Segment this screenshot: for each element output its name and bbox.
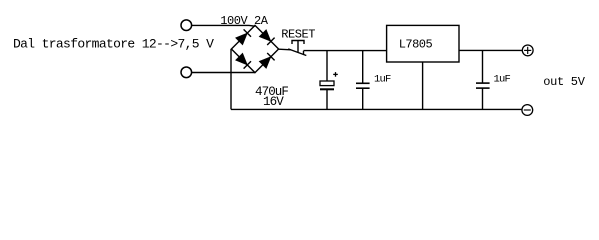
- wire: capacitor C1 top lead: [326, 51, 328, 81]
- capacitor C3 (1uF output): [476, 83, 490, 88]
- wire: switch to regulator input: [304, 50, 387, 52]
- wire: capacitor C1 bottom lead: [326, 89, 328, 109]
- svg-text:RESET: RESET: [281, 27, 315, 41]
- label: 100V 2A: [220, 14, 269, 28]
- label: 1uF (C2): [374, 73, 391, 85]
- capacitor C2 (1uF): [356, 83, 370, 88]
- label: Dal trasformatore 12 to 7,5 V: [13, 37, 214, 52]
- input terminal J1 (top): [181, 20, 192, 31]
- svg-text:out 5V: out 5V: [543, 75, 586, 89]
- wire: bottom input to bridge AC2: [192, 72, 255, 74]
- svg-text:L7805: L7805: [399, 38, 433, 52]
- wire: capacitor C3 top lead: [482, 50, 484, 83]
- label: RESET: [281, 27, 315, 41]
- svg-text:Dal trasformatore 12-->7,5 V: Dal trasformatore 12-->7,5 V: [13, 37, 214, 52]
- wire: top input to bridge AC1: [192, 24, 255, 27]
- wire: regulator ground pin to rail: [422, 62, 424, 109]
- diode D4 (lower-right, cathode right corner): [259, 53, 274, 68]
- ground rail (bottom bus wire): [231, 108, 522, 110]
- diode D1 (upper-left, anode left corner): [236, 29, 251, 44]
- wire: bridge negative (left corner) down to ground rail: [230, 49, 232, 109]
- label: out 5V: [543, 75, 586, 89]
- svg-text:16V: 16V: [263, 95, 284, 109]
- regulator U1 box: [387, 25, 459, 62]
- output terminal - (minus): [522, 105, 533, 116]
- label: 16V: [263, 95, 284, 109]
- label: 470uF: [255, 85, 288, 99]
- pushbutton SW1 (normally-closed reset button): [288, 41, 306, 56]
- bridge rectifier outline (diamond): [231, 25, 278, 72]
- label: L7805: [399, 38, 433, 52]
- diode D3 (lower-left, anode left corner): [236, 53, 251, 68]
- wire: capacitor C2 top lead: [362, 51, 364, 84]
- svg-text:1uF: 1uF: [374, 73, 391, 85]
- wire: capacitor C2 bottom lead: [362, 88, 364, 109]
- diode D2 (upper-right, cathode right corner): [259, 30, 274, 45]
- capacitor C1 (470uF electrolytic, polarized): [320, 72, 338, 89]
- wire: capacitor C3 bottom lead: [482, 88, 484, 109]
- wire: bridge positive to switch: [279, 48, 291, 51]
- input terminal J2 (bottom): [181, 67, 192, 78]
- output terminal + (plus): [522, 45, 533, 56]
- svg-text:1uF: 1uF: [494, 73, 511, 85]
- svg-text:100V 2A: 100V 2A: [220, 14, 269, 28]
- wire: regulator output to + terminal: [459, 49, 522, 51]
- label: 1uF (C3): [494, 73, 511, 85]
